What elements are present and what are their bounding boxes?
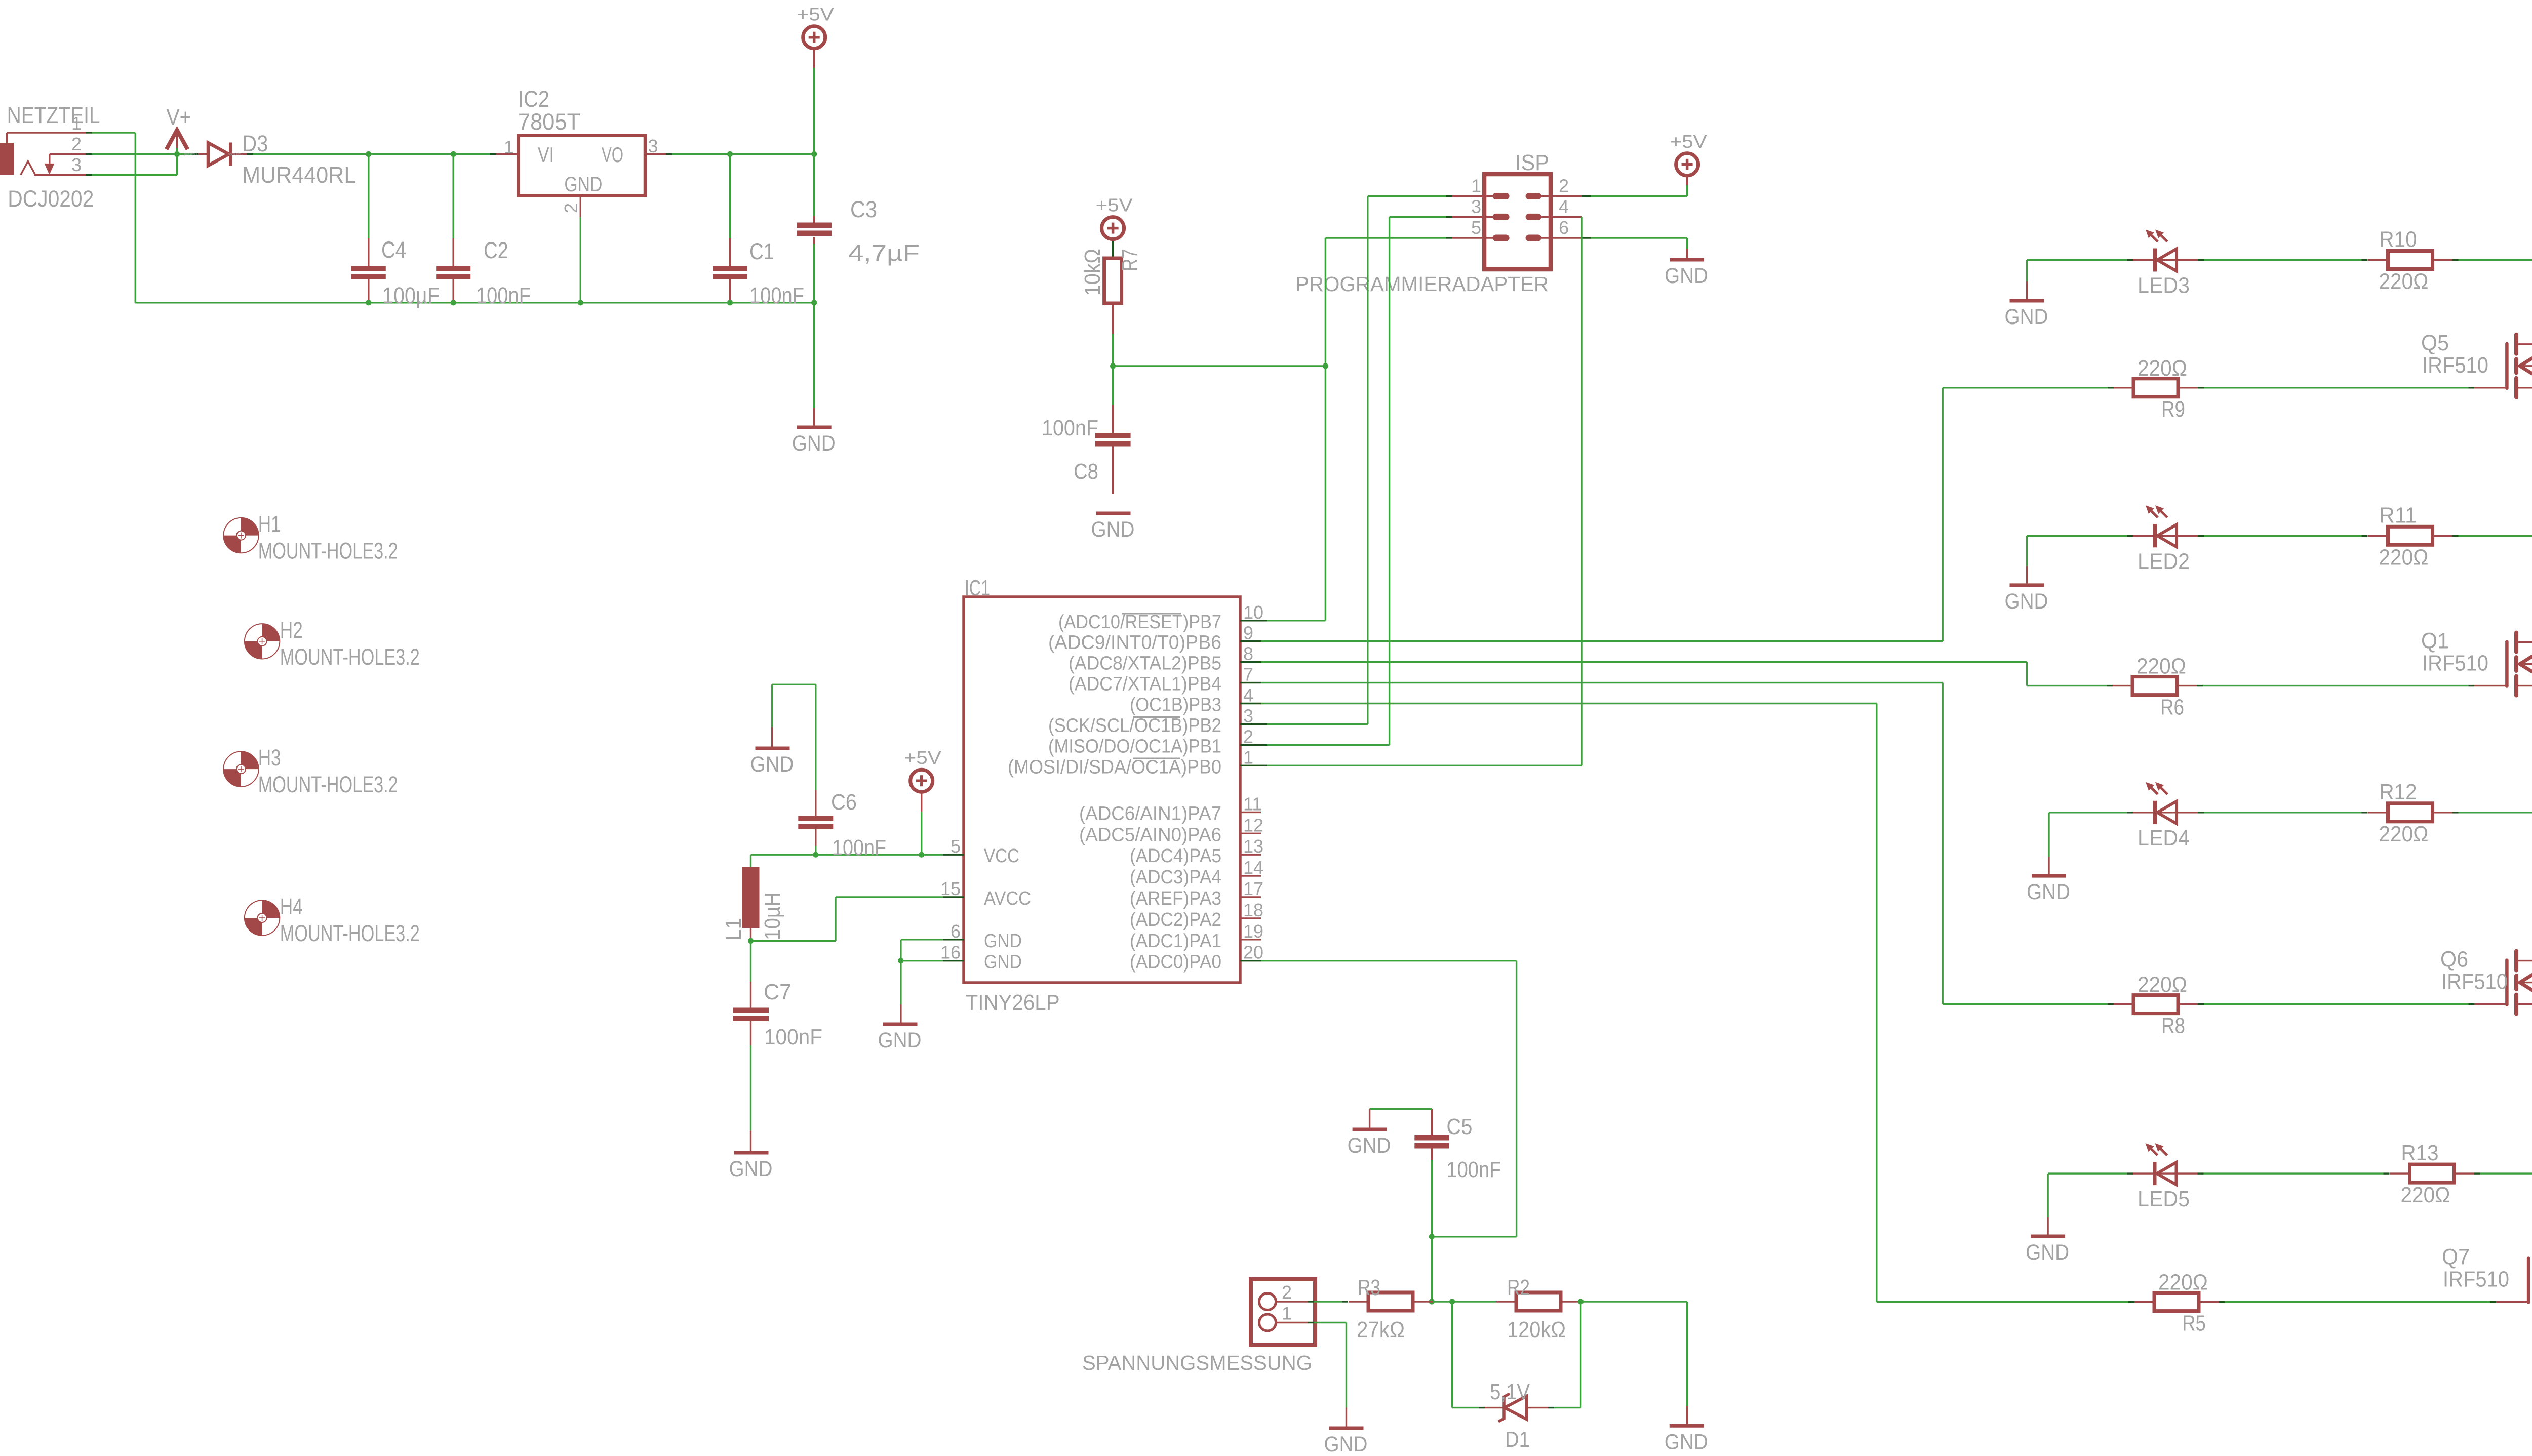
svg-text:100nF: 100nF [832,835,886,860]
svg-text:R10: R10 [2380,227,2417,252]
wire net R5 to Q7 gate [2219,1301,2528,1303]
ground GND left of C6 [750,684,794,777]
svg-text:R13: R13 [2401,1141,2439,1165]
wire net D1 branch [1452,1302,1581,1408]
svg-text:GND: GND [878,1028,922,1053]
svg-text:C2: C2 [484,237,508,263]
svg-text:2: 2 [1282,1282,1292,1303]
wire net IC1 to R6 [1261,662,2113,686]
svg-text:Q7: Q7 [2442,1245,2470,1270]
transistor Q1 IRF510 [2421,629,2532,696]
mount hole H1 MOUNT-HOLE3.2 [223,511,398,564]
svg-text:C5: C5 [1446,1114,1472,1139]
wire net LED3 cathode [2027,259,2133,261]
svg-text:1: 1 [71,113,82,134]
svg-text:SpiceOrder 2: SpiceOrder 2 [228,153,243,156]
svg-text:12: 12 [1243,815,1263,835]
wire net ISP pin5 RESET to IC1 PB7 [1261,238,1452,621]
capacitor C5 100nF [1414,1109,1501,1237]
wire net LED4 anode to R12 [2198,812,2368,813]
svg-text:100nF: 100nF [749,282,804,308]
svg-text:10: 10 [1243,602,1263,623]
svg-text:MOUNT-HOLE3.2: MOUNT-HOLE3.2 [280,920,420,946]
wire net R11 to Q drain [2452,536,2532,642]
svg-text:IC2: IC2 [518,86,549,112]
svg-text:(ADC4)PA5: (ADC4)PA5 [1130,845,1221,867]
svg-text:SpiceOrder 1: SpiceOrder 1 [183,153,197,156]
svg-text:100µF: 100µF [382,282,440,308]
capacitor C7 100nF [733,941,822,1153]
svg-text:20: 20 [1243,942,1263,963]
junction C1 bottom [727,300,733,305]
wire net LED3 anode to R10 [2198,259,2368,261]
wire net R9 to Q5 gate [2198,387,2507,388]
wire net IC1 to R8 [1261,683,2114,1004]
wire net pin3 to V+ node [86,154,177,175]
svg-text:100nF: 100nF [764,1025,822,1049]
svg-text:3: 3 [1471,196,1481,217]
resistor R6 220R [2113,654,2197,720]
svg-text:H3: H3 [258,745,281,771]
svg-text:11: 11 [1243,793,1262,814]
svg-text:GND: GND [564,172,602,196]
junction C2 top [451,151,456,157]
svg-text:100nF: 100nF [476,282,531,308]
svg-text:C6: C6 [831,790,857,815]
connector SPANNUNGSMESSUNG [1082,1279,1315,1374]
junction R2 right node [1578,1299,1584,1304]
svg-text:R8: R8 [2161,1014,2185,1038]
wire net D3 to VI [253,153,490,155]
svg-text:IRF510: IRF510 [2441,969,2508,994]
resistor R9 220R [2114,356,2198,422]
ground GND below C7 [734,1151,769,1155]
wire net 7805 GND pin to rail [580,217,581,303]
junction C3 bottom [811,300,817,305]
svg-text:MOUNT-HOLE3.2: MOUNT-HOLE3.2 [280,644,420,670]
supply +5V at ISP pin2 [1582,131,1707,196]
svg-text:C3: C3 [850,196,877,222]
svg-text:SPANNUNGSMESSUNG: SPANNUNGSMESSUNG [1082,1351,1312,1374]
svg-text:AVCC: AVCC [984,888,1031,909]
svg-text:GND: GND [2005,305,2048,329]
junction C5 node [1429,1234,1435,1239]
wire net IC1 to R9 [1261,388,2114,641]
wire net LED4 cathode [2049,812,2133,813]
svg-text:1: 1 [1471,176,1481,196]
svg-text:GND: GND [750,752,794,777]
junction D1 left node [1449,1299,1455,1304]
svg-text:5,1V: 5,1V [1490,1380,1530,1404]
svg-text:+5V: +5V [904,747,941,768]
svg-text:(ADC9/INT0/T0)PB6: (ADC9/INT0/T0)PB6 [1048,632,1221,654]
supply V+ arrow (input node) [167,105,191,154]
svg-text:2: 2 [561,203,581,213]
led LED4 [2133,782,2198,851]
inductor L1 10uH [721,855,785,941]
resistor R11 220R [2368,503,2452,570]
svg-text:27kΩ: 27kΩ [1357,1317,1405,1342]
svg-text:IRF510: IRF510 [2422,353,2488,378]
wire net VO +5V rail [672,153,814,155]
connector NETZTEIL (DCJ0202 power jack) [0,102,100,212]
wire net R8 to Q6 gate [2198,1003,2507,1005]
svg-text:220Ω: 220Ω [2401,1183,2450,1207]
svg-text:GND: GND [1091,517,1135,542]
svg-text:ISP: ISP [1515,150,1549,175]
svg-text:TINY26LP: TINY26LP [966,990,1060,1015]
svg-text:GND: GND [729,1157,773,1181]
capacitor C4 100uF [351,154,440,309]
resistor R12 220R [2368,780,2452,846]
svg-text:V+: V+ [167,105,191,130]
wire net pin1 to GND [1308,1323,1347,1429]
svg-text:R11: R11 [2380,503,2417,528]
svg-text:(ADC10/RESET)PB7: (ADC10/RESET)PB7 [1058,612,1221,633]
mount hole H3 MOUNT-HOLE3.2 [223,745,398,797]
junction RESET node [1323,363,1328,369]
svg-text:H2: H2 [280,617,303,643]
junction +5V VCC [919,852,924,858]
wire net C6 to GND link [772,684,816,685]
wire net PA0 to measurement divider [1261,961,1517,1237]
svg-text:Q5: Q5 [2421,331,2449,355]
svg-text:13: 13 [1243,836,1263,857]
ground GND at LED2 cathode [2005,536,2048,614]
ground GND at LED4 cathode [2027,813,2070,904]
svg-text:+5V: +5V [797,4,834,25]
junction C4 top [366,151,371,157]
svg-text:19: 19 [1243,921,1263,942]
svg-text:PROGRAMMIERADAPTER: PROGRAMMIERADAPTER [1295,272,1549,296]
svg-text:Q1: Q1 [2421,629,2449,654]
capacitor C6 100nF [798,684,886,860]
svg-text:120kΩ: 120kΩ [1507,1317,1566,1342]
wire net pin2 to V+ node [86,153,177,155]
wire net ISP pin1 to IC1 PB2 [1261,196,1452,724]
resistor R2 120k [1496,1275,1580,1342]
svg-text:L1: L1 [721,918,746,941]
svg-text:4,7µF: 4,7µF [848,240,920,266]
wire net LED2 anode to R11 [2198,535,2368,537]
capacitor C1 100nF [713,154,805,309]
svg-text:+5V: +5V [1670,131,1707,152]
junction IC1 GND node [898,958,903,963]
wire net divider mid [1431,1237,1433,1302]
svg-text:(ADC1)PA1: (ADC1)PA1 [1130,931,1221,952]
svg-text:4: 4 [1243,685,1253,706]
svg-text:R12: R12 [2380,780,2417,804]
svg-text:9: 9 [1243,623,1253,643]
svg-text:C4: C4 [381,237,406,263]
resistor R13 220R [2390,1141,2474,1207]
svg-text:17: 17 [1243,878,1263,899]
wire net ISP pin3 to IC1 PB1 [1261,217,1452,745]
capacitor C3 4,7uF [797,154,920,303]
junction C1 top [727,151,733,157]
svg-text:LED5: LED5 [2138,1187,2190,1211]
svg-text:3: 3 [71,154,82,175]
junction C6 VCC [813,852,818,858]
svg-text:+5V: +5V [1096,195,1133,216]
wire net ISP pin4 to IC1 PB0 [1261,217,1582,765]
svg-text:5: 5 [1471,217,1481,238]
wire net pin2 to R3 [1308,1301,1349,1302]
svg-text:2: 2 [1243,726,1253,747]
junction V+ node [174,151,180,157]
junction L1 bottom [748,938,754,944]
regulator IC2 7805T [490,86,672,217]
svg-text:C1: C1 [749,238,774,264]
wire net C5 to GND [1370,1109,1432,1129]
capacitor C8 100nF [1042,366,1131,494]
svg-text:R5: R5 [2182,1311,2206,1336]
diode D3 MUR440RL [177,131,357,188]
svg-text:5: 5 [951,836,961,857]
svg-text:GND: GND [1348,1134,1391,1158]
svg-text:1: 1 [1282,1303,1292,1324]
wire net IC1 GND pins [901,940,943,1024]
wire net RESET horizontal [1113,365,1326,367]
ground GND at ISP pin6 [1582,238,1708,288]
supply +5V at VCC [904,747,941,855]
led LED3 [2133,230,2198,298]
svg-text:220Ω: 220Ω [2379,822,2429,846]
mount hole H2 MOUNT-HOLE3.2 [245,617,420,670]
wire net IC1 to R5 [1261,704,2134,1302]
resistor R3 27k [1349,1275,1433,1342]
resistor R7 10k [1080,249,1142,303]
svg-text:3: 3 [648,136,658,156]
wire net LED2 cathode [2027,535,2133,537]
svg-text:6: 6 [951,921,961,942]
wire net AVCC [751,897,943,941]
wire net R6 to Q1 gate [2197,685,2507,686]
svg-text:(ADC7/XTAL1)PB4: (ADC7/XTAL1)PB4 [1069,674,1221,695]
svg-text:(ADC6/AIN1)PA7: (ADC6/AIN1)PA7 [1079,803,1221,824]
mcu IC1 TINY26LP [940,576,1263,1015]
svg-text:MOUNT-HOLE3.2: MOUNT-HOLE3.2 [258,772,398,797]
wire net R12 to Q drain [2452,813,2532,961]
supply +5V (regulator output) [797,4,834,154]
svg-text:100nF: 100nF [1042,416,1098,440]
junction 7805 GND rail [578,300,583,305]
ground GND below SPANNUNGSMESSUNG [1329,1427,1364,1430]
wire net R2 right to GND [1581,1302,1687,1426]
svg-text:(OC1B)PB3: (OC1B)PB3 [1130,695,1221,716]
svg-text:Q6: Q6 [2440,947,2468,972]
wire net pin1 to GND loop [86,133,135,303]
svg-text:18: 18 [1243,900,1263,920]
svg-text:(MISO/DO/OC1A)PB1: (MISO/DO/OC1A)PB1 [1048,736,1221,757]
svg-text:10kΩ: 10kΩ [1080,249,1105,296]
svg-text:IRF510: IRF510 [2422,651,2488,676]
wire net VCC rail [751,854,943,855]
svg-text:4: 4 [1559,196,1569,217]
svg-text:220Ω: 220Ω [2137,654,2186,679]
svg-text:H1: H1 [258,511,281,537]
wire net LED5 cathode [2048,1172,2133,1174]
junction C2 bottom [451,300,456,305]
zener diode D1 5,1V [1479,1380,1554,1452]
svg-text:R9: R9 [2161,397,2185,422]
svg-text:1: 1 [1243,747,1253,767]
svg-text:MOUNT-HOLE3.2: MOUNT-HOLE3.2 [258,538,398,564]
junction C4 bottom [366,300,371,305]
transistor Q7 IRF510 [2442,1245,2532,1312]
connector ISP PROGRAMMIERADAPTER [1295,150,1582,296]
svg-text:(AREF)PA3: (AREF)PA3 [1130,888,1221,909]
svg-text:IRF510: IRF510 [2443,1267,2509,1292]
svg-text:VO: VO [602,143,623,167]
wire net R10 to Q drain [2452,260,2532,345]
svg-text:IC1: IC1 [965,576,990,600]
svg-text:R3: R3 [1358,1275,1380,1300]
svg-text:3: 3 [1243,705,1253,726]
svg-text:GND: GND [984,931,1022,952]
transistor Q6 IRF510 [2440,947,2532,1014]
svg-text:GND: GND [1665,1430,1708,1454]
svg-text:14: 14 [1243,857,1263,878]
wire net R3 to R2 [1433,1301,1496,1302]
svg-text:LED3: LED3 [2138,273,2190,298]
mount hole H4 MOUNT-HOLE3.2 [245,894,420,946]
svg-text:15: 15 [940,878,961,899]
svg-text:MUR440RL: MUR440RL [242,162,356,188]
svg-text:2: 2 [71,134,82,154]
svg-text:GND: GND [2005,589,2048,614]
svg-text:8: 8 [1243,643,1253,664]
svg-text:(MOSI/DI/SDA/OC1A)PB0: (MOSI/DI/SDA/OC1A)PB0 [1008,756,1221,778]
svg-text:D3: D3 [242,131,268,156]
junction R7 node [1110,363,1116,369]
svg-text:2: 2 [1559,176,1569,196]
capacitor C2 100nF [436,154,531,309]
ground GND right of R2 [1670,1424,1704,1428]
ground GND below IC1 [883,1023,918,1026]
resistor R5 220R [2134,1270,2219,1336]
svg-text:100nF: 100nF [1446,1157,1501,1182]
svg-text:(SCK/SCL/OC1B)PB2: (SCK/SCL/OC1B)PB2 [1048,715,1221,736]
svg-text:7805T: 7805T [518,109,580,135]
svg-text:GND: GND [2027,880,2070,904]
svg-text:VI: VI [538,143,554,167]
svg-text:LED2: LED2 [2138,549,2190,574]
resistor R8 220R [2114,973,2198,1038]
svg-text:R2: R2 [1507,1275,1530,1300]
svg-text:VCC: VCC [984,845,1019,867]
ground GND at LED5 cathode [2026,1174,2069,1265]
svg-text:7: 7 [1243,664,1253,685]
ground GND left of C5 [1353,1128,1387,1131]
svg-text:GND: GND [2026,1240,2069,1265]
svg-text:GND: GND [984,952,1022,973]
svg-text:R6: R6 [2160,695,2184,720]
transistor Q5 IRF510 [2421,331,2532,397]
svg-text:(ADC5/AIN0)PA6: (ADC5/AIN0)PA6 [1079,824,1221,845]
svg-text:R7: R7 [1118,249,1142,271]
svg-text:C8: C8 [1074,459,1098,484]
svg-text:220Ω: 220Ω [2138,356,2187,381]
junction R3 node [1429,1299,1435,1304]
svg-text:GND: GND [792,431,836,456]
svg-text:LED4: LED4 [2138,826,2190,851]
svg-text:D1: D1 [1505,1427,1530,1452]
svg-text:(ADC0)PA0: (ADC0)PA0 [1130,952,1221,973]
wire net LED5 anode to R13 [2198,1172,2390,1174]
supply +5V above R7 [1096,195,1133,259]
svg-text:C7: C7 [764,980,792,1004]
led LED5 [2133,1143,2198,1211]
resistor R10 220R [2368,227,2452,294]
svg-text:DCJ0202: DCJ0202 [8,186,94,212]
svg-text:6: 6 [1559,217,1569,238]
led LED2 [2133,505,2198,574]
svg-text:220Ω: 220Ω [2379,545,2429,570]
svg-text:220Ω: 220Ω [2158,1270,2208,1295]
svg-text:220Ω: 220Ω [2138,973,2187,997]
svg-text:1: 1 [504,137,514,157]
svg-text:GND: GND [1324,1432,1368,1456]
ground GND below C8 [1096,512,1131,515]
svg-text:(ADC8/XTAL2)PB5: (ADC8/XTAL2)PB5 [1069,653,1221,674]
svg-text:GND: GND [1665,264,1708,288]
svg-text:220Ω: 220Ω [2379,269,2429,294]
wire bottom GND rail [135,302,814,303]
wire net R7 bottom to junction [1112,303,1114,366]
wire net R13 to Q drain [2474,1174,2532,1259]
ground GND below C3 [792,303,836,456]
svg-text:(ADC3)PA4: (ADC3)PA4 [1130,867,1221,888]
svg-text:10µH: 10µH [760,892,785,940]
svg-text:H4: H4 [280,894,303,919]
ground GND at LED3 cathode [2005,260,2048,330]
svg-text:(ADC2)PA2: (ADC2)PA2 [1130,909,1221,931]
svg-text:16: 16 [940,942,961,963]
svg-text:NETZTEIL: NETZTEIL [7,102,100,128]
junction C3 top +5V [811,151,817,157]
